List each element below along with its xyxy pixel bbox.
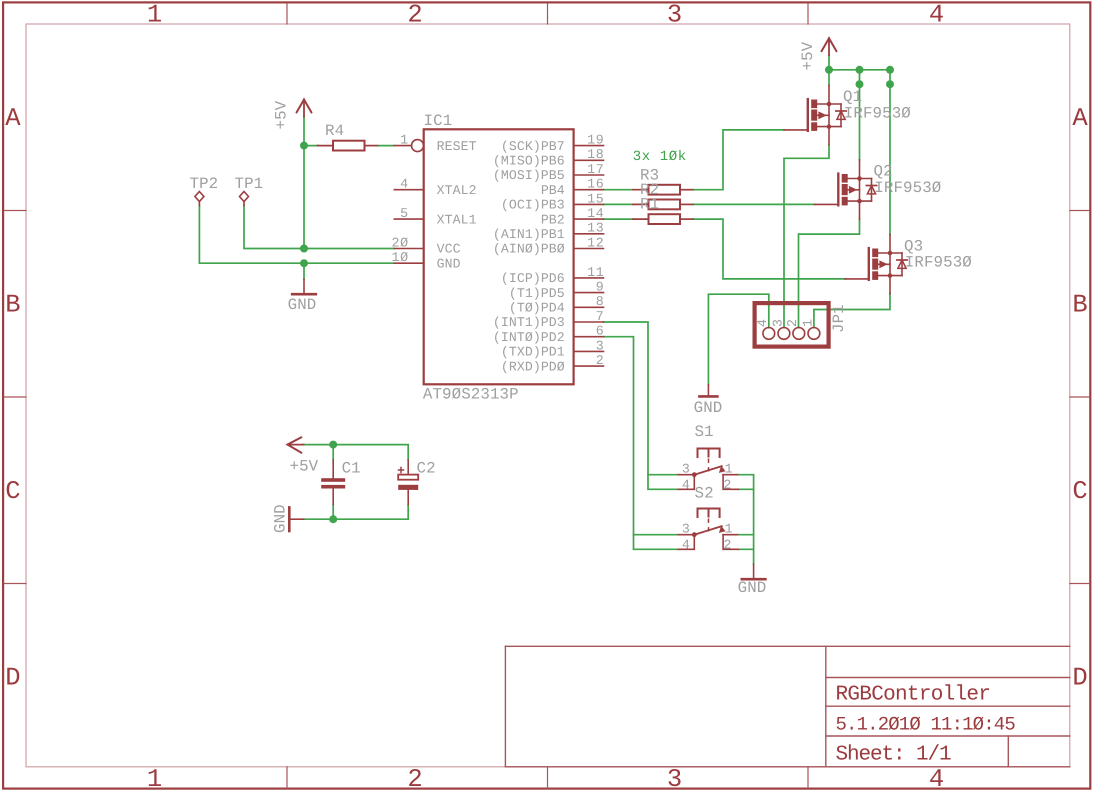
svg-text:3: 3	[682, 521, 691, 536]
svg-text:PB4: PB4	[541, 183, 565, 198]
svg-text:5: 5	[400, 206, 409, 221]
svg-text:1Ø: 1Ø	[391, 250, 408, 265]
svg-text:GND: GND	[738, 579, 767, 597]
svg-text:(TXD)PD1: (TXD)PD1	[501, 345, 565, 360]
svg-text:Q2: Q2	[874, 163, 893, 181]
svg-text:4: 4	[755, 318, 770, 327]
svg-text:5.1.2Ø1Ø 11:1Ø:45: 5.1.2Ø1Ø 11:1Ø:45	[836, 713, 1016, 735]
svg-text:B: B	[5, 291, 20, 320]
svg-text:(AIN1)PB1: (AIN1)PB1	[493, 227, 565, 242]
svg-text:C1: C1	[342, 459, 361, 477]
svg-text:VCC: VCC	[437, 242, 461, 257]
svg-text:3: 3	[596, 338, 605, 353]
svg-text:D: D	[5, 664, 20, 693]
svg-text:17: 17	[587, 162, 604, 177]
svg-text:IC1: IC1	[424, 112, 453, 130]
svg-text:RESET: RESET	[437, 139, 477, 154]
svg-text:(INTØ)PD2: (INTØ)PD2	[493, 330, 565, 345]
svg-text:4: 4	[929, 1, 944, 30]
svg-text:RGBController: RGBController	[836, 684, 991, 707]
svg-text:(ICP)PD6: (ICP)PD6	[501, 271, 565, 286]
svg-text:3: 3	[667, 1, 682, 30]
svg-text:+5V: +5V	[273, 100, 291, 129]
svg-text:+5V: +5V	[799, 41, 817, 70]
svg-text:GND: GND	[437, 256, 461, 271]
svg-text:6: 6	[596, 324, 605, 339]
svg-text:C: C	[1072, 477, 1087, 506]
svg-text:2: 2	[723, 478, 732, 493]
svg-text:4: 4	[929, 765, 944, 794]
svg-text:8: 8	[596, 294, 605, 309]
svg-text:S1: S1	[695, 423, 714, 441]
svg-text:1: 1	[725, 461, 734, 476]
svg-text:3: 3	[770, 318, 785, 327]
svg-text:3x 1Øk: 3x 1Øk	[633, 149, 687, 165]
svg-text:+5V: +5V	[290, 458, 319, 476]
svg-text:IRF953Ø: IRF953Ø	[874, 179, 941, 197]
svg-text:16: 16	[587, 177, 604, 192]
svg-text:TP1: TP1	[235, 175, 264, 193]
svg-text:(OCI)PB3: (OCI)PB3	[501, 198, 565, 213]
svg-text:15: 15	[587, 191, 604, 206]
svg-text:R4: R4	[325, 122, 344, 140]
svg-text:19: 19	[587, 133, 604, 148]
svg-text:PB2: PB2	[541, 212, 565, 227]
svg-text:2: 2	[596, 353, 605, 368]
svg-text:4: 4	[400, 177, 409, 192]
svg-text:(AINØ)PBØ: (AINØ)PBØ	[493, 242, 565, 257]
svg-text:GND: GND	[288, 296, 317, 314]
svg-text:2: 2	[407, 765, 422, 794]
svg-text:4: 4	[682, 538, 691, 553]
svg-text:(T1)PD5: (T1)PD5	[509, 286, 565, 301]
svg-text:1: 1	[800, 318, 815, 327]
svg-text:A: A	[1072, 104, 1088, 133]
svg-text:3: 3	[682, 461, 691, 476]
svg-text:B: B	[1072, 291, 1087, 320]
svg-text:C2: C2	[417, 459, 436, 477]
svg-text:(TØ)PD4: (TØ)PD4	[509, 301, 565, 316]
svg-text:(INT1)PD3: (INT1)PD3	[493, 315, 565, 330]
svg-text:1: 1	[147, 765, 162, 794]
svg-text:IRF953Ø: IRF953Ø	[905, 254, 972, 272]
svg-text:13: 13	[587, 221, 604, 236]
svg-text:12: 12	[587, 235, 604, 250]
svg-text:A: A	[5, 104, 21, 133]
svg-text:(RXD)PDØ: (RXD)PDØ	[501, 359, 565, 374]
svg-text:7: 7	[596, 309, 605, 324]
svg-text:D: D	[1072, 664, 1087, 693]
svg-text:AT9ØS2313P: AT9ØS2313P	[423, 385, 519, 403]
svg-text:GND: GND	[272, 504, 290, 533]
svg-text:4: 4	[682, 478, 691, 493]
svg-text:TP2: TP2	[190, 175, 219, 193]
svg-text:2Ø: 2Ø	[391, 235, 408, 250]
svg-text:S2: S2	[695, 484, 714, 502]
svg-text:3: 3	[667, 765, 682, 794]
svg-text:IRF953Ø: IRF953Ø	[844, 105, 911, 123]
svg-text:2: 2	[723, 538, 732, 553]
svg-text:(SCK)PB7: (SCK)PB7	[501, 139, 565, 154]
svg-text:XTAL1: XTAL1	[437, 212, 477, 227]
svg-text:9: 9	[596, 280, 605, 295]
svg-text:Q1: Q1	[843, 88, 862, 106]
svg-text:2: 2	[407, 1, 422, 30]
svg-text:1: 1	[725, 521, 734, 536]
svg-text:11: 11	[587, 265, 604, 280]
svg-text:14: 14	[587, 206, 604, 221]
svg-text:XTAL2: XTAL2	[437, 183, 477, 198]
svg-text:R1: R1	[640, 196, 659, 214]
svg-text:GND: GND	[694, 399, 723, 417]
svg-text:1: 1	[147, 1, 162, 30]
svg-text:18: 18	[587, 147, 604, 162]
svg-text:2: 2	[785, 318, 800, 327]
svg-text:C: C	[5, 477, 20, 506]
svg-text:Sheet: 1/1: Sheet: 1/1	[836, 744, 952, 767]
svg-text:1: 1	[400, 133, 409, 148]
svg-text:(MISO)PB6: (MISO)PB6	[493, 154, 565, 169]
svg-text:JP1: JP1	[830, 304, 848, 333]
svg-text:(MOSI)PB5: (MOSI)PB5	[493, 168, 565, 183]
